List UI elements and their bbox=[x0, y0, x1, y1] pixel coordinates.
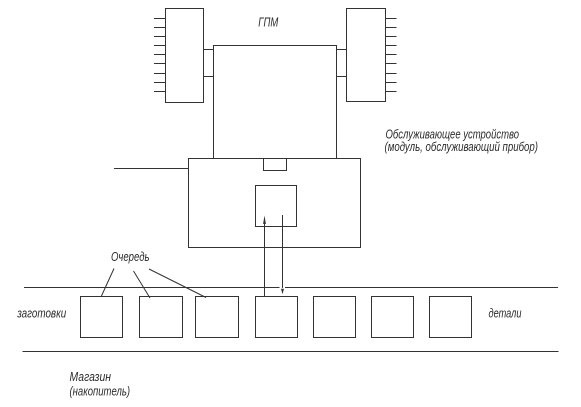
svg-text:детали: детали bbox=[489, 307, 522, 321]
svg-text:(модуль, обслуживающий прибор): (модуль, обслуживающий прибор) bbox=[385, 140, 539, 154]
svg-text:(накопитель): (накопитель) bbox=[70, 384, 131, 398]
svg-text:ГПМ: ГПМ bbox=[258, 16, 278, 30]
svg-text:заготовки: заготовки bbox=[16, 307, 66, 321]
svg-text:Магазин: Магазин bbox=[70, 370, 112, 384]
svg-text:Очередь: Очередь bbox=[111, 250, 150, 264]
